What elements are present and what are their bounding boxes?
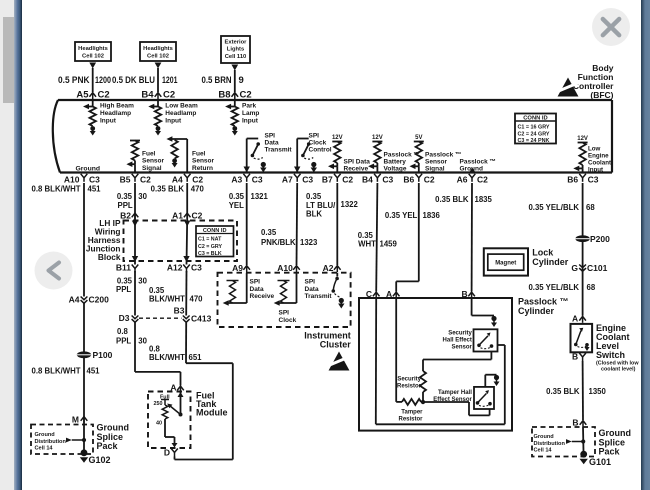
SPI data transmit switch cell <box>246 139 248 173</box>
passlock cylinder outline <box>359 298 512 431</box>
connector D3 <box>132 316 139 319</box>
wire 1323 A7 to A10 <box>296 183 299 265</box>
ground distribution cell 14 dashed box (left) <box>31 425 93 455</box>
connector A5 C2 <box>89 93 96 97</box>
cluster SPI data transmit switch <box>336 273 338 277</box>
wire B2-B11 through junction block <box>132 221 138 227</box>
connector A at coolant switch <box>579 316 586 320</box>
ground distribution cell 14 dashed box (right) <box>532 427 595 457</box>
connector B below coolant switch <box>579 353 586 357</box>
tamper hall effect sensor box <box>474 387 494 409</box>
junction block dashed outline <box>124 221 238 262</box>
fuel sensor signal cell <box>130 140 140 142</box>
cluster SPI clock resistor <box>296 273 298 303</box>
fuel tank module dashed outline <box>148 392 191 449</box>
wire 1350 segment <box>582 361 584 420</box>
connector B6 C3 right <box>579 174 586 178</box>
connector A10 (cluster) <box>293 266 300 270</box>
ESD symbol at BFC <box>558 78 579 97</box>
connector A10 C3 <box>81 174 88 178</box>
security resistor <box>420 371 426 392</box>
connector D <box>171 449 178 453</box>
wire 1836 B6 to A <box>418 183 420 281</box>
sidebar scrollbar thumb <box>3 17 14 103</box>
wire 1459 B4 to C <box>376 183 377 292</box>
wire to G101 <box>582 427 585 452</box>
box Headlights Cell 102 (second) <box>140 42 176 61</box>
connector A7 C3 <box>294 174 301 178</box>
connector B5 C2 <box>132 174 139 178</box>
connector A4 C2 <box>184 174 191 178</box>
junction dot on wire 1350 <box>581 439 585 443</box>
connector B4 C3 <box>374 174 381 178</box>
wire B inside passlock to security sensor supply <box>471 298 473 316</box>
ESD symbol at instrument cluster <box>329 352 350 371</box>
wire 9 from exterior lights cell to B8 <box>231 65 238 71</box>
left blue strip <box>14 0 22 490</box>
wire 30 PPL segment D3 to fuel tank module <box>134 323 136 372</box>
arrow from cell 14 into splice wire <box>66 438 72 443</box>
fuel sender ground side wire to D <box>164 419 166 437</box>
connector A1 C2 <box>184 213 191 217</box>
arrow from cell 14 into wire (right) <box>566 439 572 444</box>
connector B7 C2 <box>334 174 341 178</box>
connector B4 C2 <box>155 93 162 97</box>
wire from D around to 651 wire <box>174 457 176 460</box>
connector A2 <box>334 266 341 270</box>
BFC module outline <box>58 99 612 101</box>
instrument cluster dashed outline <box>218 273 351 327</box>
ground G102 <box>81 449 88 456</box>
low beam headlamp input cell <box>157 100 159 107</box>
left gray sidebar <box>0 0 14 490</box>
wire 1201 from headlights cell to B4 <box>155 63 162 69</box>
SPI clock control switch cell <box>296 139 298 173</box>
wire 451 mid segment <box>83 304 85 451</box>
connector M at ground splice pack <box>81 417 88 421</box>
wire 68 segment to P200 <box>582 183 584 316</box>
park lamp input cell <box>234 100 236 107</box>
connector B6 C2 <box>416 174 423 178</box>
wire C inside passlock to tamper sensor <box>375 298 377 424</box>
right blue strip <box>641 0 650 490</box>
wire 451 upper segment <box>83 183 85 297</box>
splice P100 <box>77 351 91 358</box>
fuel sensor return cell <box>186 139 188 173</box>
wire 470 segment A12-B3 <box>185 271 187 316</box>
wire 30 PPL segment B5-B2 <box>134 183 136 219</box>
connector A at fuel tank module <box>177 386 184 390</box>
splice P200 <box>575 235 589 242</box>
tamper resistor <box>402 399 421 405</box>
wire A1-A12 through junction block <box>184 221 190 227</box>
wire 1322 B7 to A2 <box>336 183 338 265</box>
wire 470 segment A4-A1 <box>186 183 188 219</box>
high beam headlamp input cell <box>92 100 94 107</box>
connector B8 C2 <box>232 93 239 97</box>
junction block CONN ID box <box>196 226 234 257</box>
wire A inside passlock to tamper resistor <box>395 298 397 402</box>
connector A6 C2 <box>469 174 476 178</box>
tamper sensor supply loop <box>484 375 486 387</box>
connector B at ground splice pack (right) <box>580 421 587 425</box>
dashed connector line D3-B3 (C413) <box>139 317 182 319</box>
connector B11 <box>132 265 139 269</box>
connector A4 C200 <box>81 297 88 300</box>
lock cylinder box with magnet <box>484 248 528 275</box>
connector A3 C3 <box>243 174 250 178</box>
wire 30 PPL segment B11-D3 <box>134 271 136 316</box>
ground G101 <box>580 451 587 458</box>
box Exterior Lights Cell 110 <box>221 36 250 63</box>
fuel sender wiper arm <box>179 413 183 417</box>
wire 1835 A6 to B <box>471 183 473 292</box>
connector B3 C413 <box>183 316 190 319</box>
wire 651 segment C413 down <box>185 323 187 364</box>
connector A at passlock cylinder <box>393 292 400 296</box>
junction dot security/tamper resistors <box>421 400 425 404</box>
connector C at passlock cylinder <box>373 292 380 296</box>
engine coolant level switch box <box>571 324 593 352</box>
cluster SPI data receive resistor <box>246 273 248 303</box>
junction dot on wire 451 <box>82 438 86 442</box>
connector B at passlock cylinder <box>468 292 475 296</box>
connector A9 <box>243 266 250 270</box>
BFC CONN ID box <box>515 114 556 144</box>
previous page nav button <box>35 252 73 290</box>
security hall effect sensor box <box>474 329 498 351</box>
box Headlights Cell 102 (left) <box>75 42 111 61</box>
wire junction to tamper sensor <box>423 401 469 403</box>
connector G C101 <box>579 265 586 268</box>
security sensor supply dot <box>491 316 496 321</box>
wire 1321 A3 to A9 <box>246 183 248 265</box>
wire security sensor to security resistor <box>490 352 492 360</box>
connector A12 C3 <box>183 265 190 269</box>
wire 1200 from headlights cell to A5 <box>89 63 96 69</box>
close button <box>592 8 630 46</box>
